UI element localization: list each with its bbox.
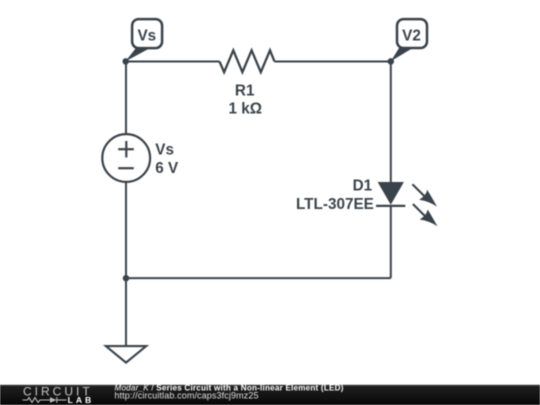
ground symbol	[106, 346, 146, 363]
logo schematic squiggle (resistor and diode)	[23, 397, 67, 403]
svg-text:LTL-307EE: LTL-307EE	[296, 196, 374, 213]
node V2 junction dot	[388, 58, 395, 65]
svg-text:Vs: Vs	[155, 142, 174, 159]
voltage source Vs	[102, 134, 150, 182]
wire ground stem	[125, 278, 127, 346]
svg-text:6 V: 6 V	[155, 160, 179, 177]
wire left rail upper (node Vs to source)	[125, 62, 127, 136]
node flag V2	[391, 19, 427, 61]
wire top-left (node Vs to R1)	[126, 61, 220, 63]
wire bottom (junction to right rail)	[126, 277, 391, 279]
svg-text:1 kΩ: 1 kΩ	[229, 100, 263, 117]
wire right rail upper (node V2 to LED)	[390, 62, 392, 184]
node flag Vs	[126, 19, 163, 61]
bottom junction dot	[123, 275, 130, 282]
footer bar	[0, 385, 540, 405]
svg-text:Vs: Vs	[137, 28, 156, 45]
svg-text:D1: D1	[353, 178, 373, 195]
node Vs junction dot	[122, 58, 129, 65]
wire right rail lower (LED to bottom wire)	[390, 206, 392, 278]
wire left rail lower (source to bottom junction)	[125, 181, 127, 278]
svg-text:V2: V2	[402, 28, 421, 45]
wire top-right (R1 to node V2)	[275, 61, 391, 63]
svg-text:LAB: LAB	[68, 395, 95, 405]
svg-text:R1: R1	[235, 82, 255, 99]
svg-text:http://circuitlab.com/caps3fcj: http://circuitlab.com/caps3fcj9mz25	[114, 390, 258, 400]
LED D1	[376, 182, 438, 226]
resistor R1	[220, 50, 275, 72]
